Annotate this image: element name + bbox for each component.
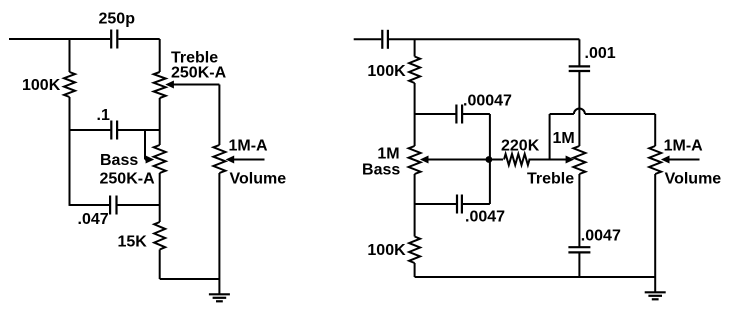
svg-text:.0047: .0047 — [581, 227, 621, 244]
svg-text:Volume: Volume — [665, 171, 722, 188]
svg-text:1M: 1M — [377, 145, 399, 162]
svg-text:.1: .1 — [97, 107, 110, 124]
svg-text:1M-A: 1M-A — [664, 138, 704, 155]
svg-text:Treble: Treble — [527, 170, 574, 187]
svg-text:Volume: Volume — [230, 171, 287, 188]
svg-text:.0047: .0047 — [465, 209, 505, 226]
svg-text:.00047: .00047 — [463, 93, 512, 110]
svg-text:1M-A: 1M-A — [229, 138, 269, 155]
svg-text:1M: 1M — [553, 130, 575, 147]
svg-text:Bass: Bass — [362, 162, 400, 179]
svg-text:250K-A: 250K-A — [100, 171, 156, 188]
svg-text:250K-A: 250K-A — [171, 65, 227, 82]
svg-text:220K: 220K — [501, 138, 540, 155]
svg-text:250p: 250p — [99, 11, 136, 28]
svg-text:.001: .001 — [585, 45, 616, 62]
svg-text:.047: .047 — [78, 211, 109, 228]
svg-text:Bass: Bass — [100, 152, 138, 169]
svg-text:15K: 15K — [118, 234, 148, 251]
svg-text:100K: 100K — [22, 77, 61, 94]
svg-text:100K: 100K — [367, 63, 406, 80]
svg-text:100K: 100K — [367, 242, 406, 259]
